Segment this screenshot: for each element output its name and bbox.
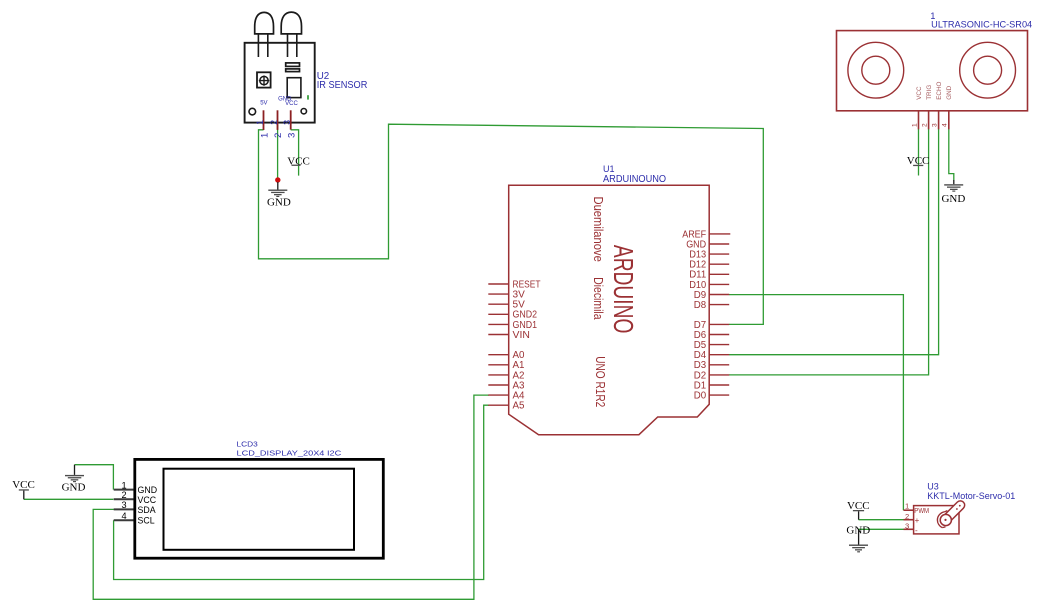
wire ultrasonic pin2 TRIG to Arduino D2 (729, 129, 929, 375)
svg-text:PWM: PWM (914, 506, 929, 515)
wire ultrasonic pin3 ECHO to Arduino D4 (729, 129, 939, 355)
svg-text:2: 2 (905, 512, 909, 521)
svg-text:1: 1 (259, 133, 270, 138)
potentiometer square (257, 72, 271, 87)
left pin names (513, 279, 541, 411)
svg-text:ARDUINOUNO: ARDUINOUNO (603, 174, 667, 185)
power VCC (ultrasonic) (907, 155, 930, 167)
mount hole right (301, 109, 306, 114)
svg-text:ECHO: ECHO (936, 82, 943, 100)
IR sensor U2 (245, 12, 368, 138)
servo horn circle (940, 514, 951, 525)
power VCC (LCD) (12, 479, 35, 499)
svg-text:4: 4 (942, 123, 949, 127)
ground (LCD) (62, 465, 86, 494)
left pin stubs (488, 284, 508, 405)
svg-text:5V: 5V (260, 101, 267, 107)
LED dome 2 (281, 12, 301, 34)
svg-text:D8: D8 (694, 300, 707, 311)
LCD outer body (135, 459, 383, 558)
right transducer inner (974, 56, 1002, 84)
svg-text:3: 3 (286, 133, 297, 138)
pin 2 stub (904, 519, 914, 521)
LED 1 legs (258, 34, 267, 57)
svg-text:ULTRASONIC-HC-SR04: ULTRASONIC-HC-SR04 (931, 20, 1032, 30)
mount hole left (249, 108, 256, 115)
svg-text:ARDUINO: ARDUINO (608, 245, 639, 334)
IC rectangle (287, 78, 301, 98)
svg-text:LCD_DISPLAY_20X4 I2C: LCD_DISPLAY_20X4 I2C (237, 449, 342, 458)
svg-text:VCC: VCC (138, 495, 157, 505)
svg-text:SCL: SCL (138, 516, 155, 526)
ground (IR sensor) (267, 182, 291, 209)
servo motor U3 (904, 482, 1016, 535)
header bar 2 (286, 69, 300, 72)
svg-text:UNO R1R2: UNO R1R2 (593, 356, 607, 407)
LED 2 legs (288, 34, 297, 57)
pin 2 stub (114, 498, 134, 500)
svg-text:A5: A5 (513, 401, 526, 412)
svg-text:2: 2 (273, 133, 284, 138)
svg-text:GND: GND (946, 85, 953, 99)
LCD display LCD3 (114, 440, 384, 559)
ultrasonic sensor HC-SR04 (837, 11, 1033, 129)
svg-text:VCC: VCC (285, 101, 298, 107)
svg-text:2: 2 (121, 490, 126, 500)
IR sensor body (245, 43, 315, 123)
svg-text:GND: GND (62, 482, 86, 494)
pin 1 stub (918, 111, 920, 130)
svg-text:Duemilanove: Duemilanove (591, 197, 605, 262)
svg-text:D0: D0 (694, 391, 707, 402)
svg-text:-: - (915, 526, 918, 535)
left transducer inner (862, 56, 890, 84)
pin 3 stub (904, 528, 914, 530)
servo body (914, 506, 959, 534)
svg-text:3: 3 (905, 522, 909, 531)
svg-text:1: 1 (121, 480, 126, 490)
ultrasonic body (837, 31, 1028, 111)
svg-text:1: 1 (255, 120, 265, 125)
junction dot on IR GND wire (275, 177, 280, 182)
wire ultrasonic pin4 to GND (949, 129, 954, 180)
wire LCD pin1 to GND (75, 465, 114, 490)
pin 3 stub (290, 110, 292, 129)
svg-text:GND: GND (138, 485, 158, 495)
svg-text:U1: U1 (603, 164, 615, 174)
wire Arduino A4 to LCD SDA (93, 395, 489, 599)
svg-text:VIN: VIN (513, 330, 530, 341)
rotation arc (937, 512, 944, 528)
ground (ultrasonic) (941, 180, 965, 205)
pin 3 stub (114, 508, 134, 510)
power VCC (servo) (847, 500, 870, 520)
pin 1 stub (114, 489, 134, 491)
wire Arduino D9 to servo pin1 PWM (729, 295, 903, 511)
svg-text:3: 3 (931, 123, 938, 127)
right pin stubs (709, 234, 730, 395)
svg-text:KKTL-Motor-Servo-01: KKTL-Motor-Servo-01 (927, 491, 1015, 501)
svg-text:IR SENSOR: IR SENSOR (317, 80, 368, 91)
pin 2 stub (277, 110, 279, 130)
pin 4 stub (948, 111, 950, 130)
Arduino U1 (488, 164, 730, 435)
LED dome 1 (255, 12, 274, 34)
servo horn arm (941, 501, 964, 524)
svg-text:1: 1 (911, 123, 918, 127)
servo horn center dot (944, 519, 946, 521)
pin 2 stub (928, 111, 930, 130)
svg-text:GND: GND (267, 197, 291, 209)
power VCC (IR sensor) (287, 155, 310, 167)
header bar 1 (286, 63, 300, 67)
Arduino body (509, 185, 710, 434)
svg-text:+: + (915, 516, 920, 525)
svg-text:VCC: VCC (916, 86, 923, 100)
svg-text:2: 2 (921, 123, 928, 127)
LCD screen inner (164, 469, 355, 550)
pin 4 stub (114, 519, 134, 521)
wire ultrasonic pin1 to VCC (918, 129, 920, 176)
wire IR U2 pin3 to VCC (291, 130, 299, 176)
right pin names (682, 229, 707, 401)
wire IR U2 pin2 to GND (277, 125, 279, 180)
green mark (307, 95, 309, 99)
servo horn dots (956, 508, 958, 510)
svg-text:3: 3 (282, 120, 292, 125)
svg-text:1: 1 (905, 501, 909, 510)
svg-text:4: 4 (121, 511, 126, 521)
svg-text:3: 3 (121, 500, 126, 510)
wire servo pin2 to VCC (859, 519, 904, 521)
wire IR U2 pin1 to Arduino D7 (259, 124, 764, 324)
pin 1 stub (263, 110, 265, 130)
svg-text:SDA: SDA (138, 505, 156, 515)
svg-text:VCC: VCC (12, 479, 35, 491)
svg-text:GND: GND (941, 193, 965, 205)
pin 1 stub (904, 509, 914, 511)
wire Arduino A5 to LCD SCL (114, 405, 489, 579)
wire LCD pin2 to VCC (24, 498, 114, 500)
svg-text:Diecimila: Diecimila (591, 277, 605, 320)
svg-text:2: 2 (269, 120, 279, 125)
left transducer outer (848, 42, 904, 98)
ground (servo) (846, 524, 870, 552)
svg-text:TRIG: TRIG (926, 85, 933, 100)
wire servo pin3 to GND (858, 528, 903, 530)
pin 3 stub (938, 111, 940, 130)
right transducer outer (960, 42, 1016, 98)
potentiometer circle cross (260, 76, 268, 84)
svg-text:LCD3: LCD3 (237, 440, 258, 449)
